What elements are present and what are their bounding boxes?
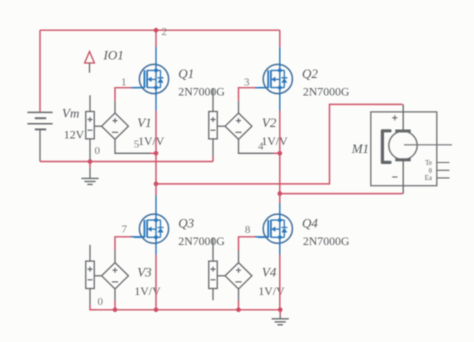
V4 diamond top lead [238, 251, 240, 263]
wire node 8 [239, 237, 257, 251]
wire left drop to battery [39, 30, 41, 111]
ground bottom junction dot [278, 308, 283, 313]
V4 junction dot [236, 308, 241, 313]
node 5 junction dot [154, 151, 159, 156]
svg-text:0: 0 [95, 145, 101, 157]
V4 diamond bottom lead [238, 289, 240, 301]
wire Q1 source red [155, 111, 157, 154]
V3 diamond bottom lead [114, 289, 116, 301]
node 0 junction dot [88, 159, 93, 164]
svg-text:Te: Te [425, 159, 432, 167]
wire V2 rect to rail [212, 157, 214, 162]
wire Q1 drain red [155, 30, 157, 46]
transistor Q2 [258, 63, 293, 95]
vcvs V3 input rect [86, 261, 95, 288]
svg-text:2: 2 [162, 26, 168, 38]
V4 input rect top lead [212, 238, 214, 261]
wire Q3 source red [155, 255, 157, 310]
svg-text:Q3: Q3 [178, 215, 194, 230]
V1 rect-diamond link [94, 125, 101, 127]
svg-text:3: 3 [244, 77, 250, 89]
svg-text:1V/V: 1V/V [134, 284, 161, 298]
wire V1 rect to rail [89, 160, 91, 162]
Q3 drain lead blue [155, 196, 157, 214]
node 2 junction dot [154, 28, 159, 33]
transistor Q4 [258, 213, 293, 245]
wire top rail node 2 [40, 29, 280, 31]
svg-text:0: 0 [98, 296, 104, 308]
Q2 source lead blue [279, 95, 281, 111]
V3 input rect bottom lead [89, 289, 91, 306]
V3 diamond top lead [114, 251, 116, 263]
wire B to Q4 drain [279, 194, 281, 203]
Q2 gate lead blue [255, 87, 268, 89]
svg-text:V3: V3 [137, 265, 152, 280]
svg-text:2N7000G: 2N7000G [178, 84, 225, 98]
wire B branch to motor minus [280, 193, 403, 195]
vcvs V2 output diamond [225, 113, 252, 139]
node 4 junction dot [278, 151, 283, 156]
wire Q2 source red [279, 111, 281, 154]
node A junction dot [154, 182, 159, 187]
V4 rect-diamond link [217, 275, 225, 277]
vcvs V1 input rect [86, 112, 95, 139]
svg-text:1V/V: 1V/V [261, 134, 288, 148]
svg-text:7: 7 [122, 224, 128, 236]
Q3 source lead blue [155, 244, 157, 254]
svg-text:V2: V2 [262, 115, 277, 130]
V3 rect-diamond link [94, 275, 101, 277]
svg-text:8: 8 [245, 224, 251, 236]
battery Vm bottom lead [39, 129, 41, 160]
ground bottom-right [272, 310, 289, 325]
wire Q2 drain red [279, 30, 281, 47]
wire node 3 [239, 88, 257, 101]
svg-text:Q4: Q4 [302, 215, 318, 230]
wire A to Q3 drain [155, 184, 157, 196]
wire V3 to rail [114, 301, 116, 310]
wire midpoint B column [279, 153, 281, 193]
svg-text:Ea: Ea [425, 174, 433, 182]
wire V3 rect to rail [90, 305, 96, 310]
vcvs V1 output diamond [102, 113, 129, 139]
svg-text:V4: V4 [262, 265, 277, 280]
Q1 gate lead blue [131, 87, 144, 89]
V2 diamond top lead [238, 101, 240, 113]
V2 rect-diamond link [217, 125, 225, 127]
wire node 4 [273, 152, 280, 154]
wire midpoint A column [155, 153, 157, 184]
svg-text:IO1: IO1 [103, 48, 124, 63]
vcvs V3 output diamond [102, 263, 129, 289]
svg-text:Q2: Q2 [302, 66, 318, 81]
svg-text:2N7000G: 2N7000G [303, 84, 350, 98]
wire V4 to rail [238, 301, 240, 310]
vcvs V4 input rect [209, 261, 218, 288]
V3 junction dot [113, 308, 118, 313]
svg-text:Vm: Vm [62, 106, 79, 121]
V4 input rect bottom lead [212, 289, 214, 301]
Q1 drain lead blue [155, 47, 157, 64]
svg-text:1V/V: 1V/V [258, 284, 285, 298]
Q2 drain lead blue [279, 47, 281, 63]
svg-text:1V/V: 1V/V [138, 134, 165, 148]
battery Vm plates [27, 112, 52, 129]
transistor Q1 [134, 63, 169, 95]
Q4 drain lead blue [279, 203, 281, 214]
Q4 source lead blue [279, 244, 281, 255]
V1 diamond bottom lead [115, 139, 150, 153]
svg-text:2N7000G: 2N7000G [303, 234, 350, 248]
svg-text:Q1: Q1 [178, 66, 194, 81]
ground top-left [81, 162, 98, 185]
motor M1 [371, 104, 452, 193]
Q4 gate lead blue [255, 236, 268, 238]
wire A branch to motor plus [156, 104, 403, 183]
svg-text:1: 1 [121, 77, 127, 89]
V2 input rect top lead [212, 89, 214, 112]
V3 input rect top lead [89, 245, 91, 261]
Q3 source junction dot [154, 308, 159, 313]
svg-text:V1: V1 [137, 115, 151, 130]
svg-text:M1: M1 [351, 141, 369, 156]
wire node 7 [115, 237, 133, 251]
V2 input rect bottom lead [212, 139, 214, 157]
vcvs V4 output diamond [225, 263, 252, 289]
V1 diamond top lead [114, 101, 116, 113]
wire bottom-left rail node 0 [40, 161, 213, 162]
svg-text:2N7000G: 2N7000G [178, 234, 225, 248]
V1 input rect top lead [89, 95, 91, 111]
wire Q4 source red [279, 255, 281, 310]
V2 diamond bottom lead [239, 139, 274, 153]
current probe IO1 [85, 52, 95, 73]
wire node 1 [115, 88, 133, 101]
transistor Q3 [134, 213, 169, 245]
wire bottom ground rail [90, 309, 280, 311]
svg-text:12V: 12V [64, 127, 85, 141]
wire node 5 [150, 152, 156, 154]
Q1 source lead blue [155, 95, 157, 111]
node B junction dot [278, 191, 283, 196]
vcvs V2 input rect [209, 112, 218, 139]
Q3 gate lead blue [131, 236, 144, 238]
V1 input rect bottom lead [89, 139, 91, 160]
